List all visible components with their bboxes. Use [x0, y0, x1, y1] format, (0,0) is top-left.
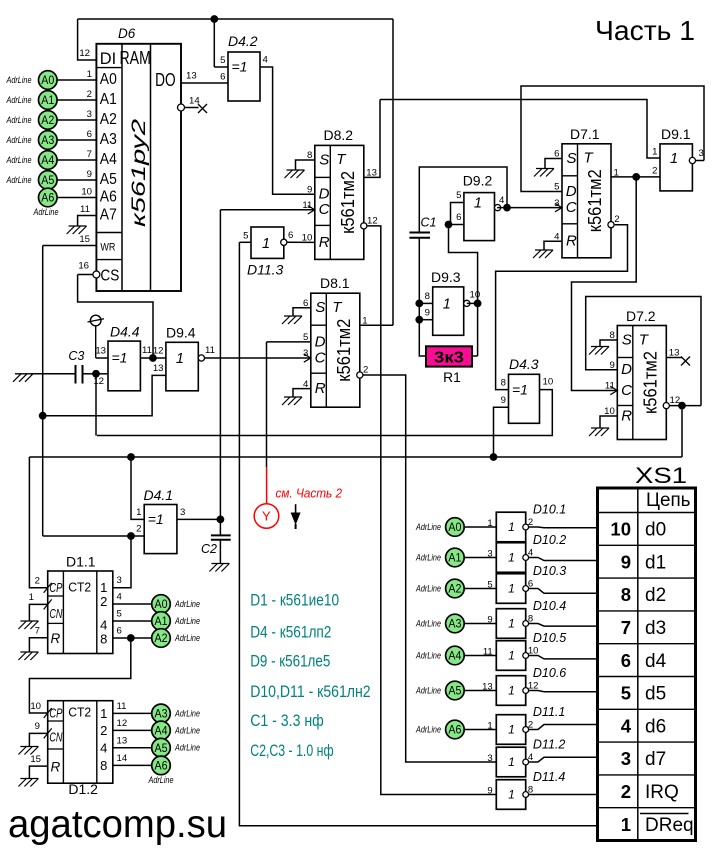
ground C3 [13, 374, 33, 382]
svg-text:A4: A4 [155, 724, 168, 738]
svg-text:1: 1 [508, 617, 515, 631]
svg-text:4: 4 [100, 740, 107, 755]
wire D4.1 pin1 riser [131, 457, 144, 519]
wire D11.2 out to XS1 [528, 757, 597, 762]
wire D9.3 pin9 [419, 319, 432, 321]
svg-text:AdrLine: AdrLine [6, 75, 32, 85]
svg-text:10: 10 [470, 290, 481, 301]
wire D1.1 out1 pin3 [117, 575, 122, 586]
svg-text:A6: A6 [100, 188, 117, 205]
junction D9.2 pin6 [445, 221, 452, 228]
wire D8.2 C clock line [220, 209, 314, 211]
svg-text:R1: R1 [443, 370, 461, 385]
node Y to Часть 2 [254, 504, 279, 529]
svg-text:A2: A2 [155, 631, 168, 645]
ground D7.2 S [589, 347, 609, 355]
wire D1.2 out2 pin12 to A4 [113, 718, 152, 730]
svg-text:C1 - 3.3 нф: C1 - 3.3 нф [250, 712, 324, 730]
wire QN12 down to bus [681, 406, 683, 457]
node A1 AdrLine (RAM side) [6, 89, 97, 109]
svg-text:D: D [566, 183, 577, 200]
junction D9.3 pin8 [416, 300, 423, 307]
svg-text:C1: C1 [421, 216, 437, 230]
svg-text:1: 1 [100, 706, 107, 721]
svg-text:d7: d7 [645, 749, 666, 770]
wire D9.2 out to D7.1 C [497, 207, 562, 209]
ground D8.1 R [282, 397, 302, 405]
svg-text:D9.3: D9.3 [431, 269, 461, 285]
svg-text:11: 11 [142, 345, 152, 356]
junction D4.4 out CS [150, 355, 157, 362]
svg-text:S: S [315, 299, 325, 316]
svg-text:8: 8 [100, 758, 107, 773]
svg-text:A2: A2 [448, 582, 461, 596]
svg-text:4: 4 [117, 592, 123, 603]
wire D11.3 out to D8.2 R [287, 241, 315, 243]
svg-text:D9.4: D9.4 [166, 325, 196, 341]
wire D9.3 pin8 [419, 302, 432, 304]
svg-text:A1: A1 [100, 91, 117, 108]
svg-text:4: 4 [621, 715, 632, 736]
wire D1.1 R to ground [29, 638, 47, 652]
svg-text:agatcomp.su: agatcomp.su [8, 803, 227, 846]
wire D4.4 out to D9.4 [140, 357, 166, 359]
svg-text:=1: =1 [232, 59, 248, 75]
svg-text:D8.1: D8.1 [320, 275, 350, 291]
svg-text:3: 3 [699, 148, 704, 159]
svg-text:3: 3 [554, 198, 559, 209]
svg-text:1: 1 [487, 518, 492, 529]
wire D10.5 out to XS1 [528, 656, 597, 659]
svg-text:7: 7 [621, 617, 631, 638]
node A4 AdrLine (RAM side) [6, 149, 97, 169]
flip-flop D8.1 к561тм2 [303, 293, 368, 407]
svg-text:см. Часть 2: см. Часть 2 [276, 487, 343, 501]
svg-text:10: 10 [610, 519, 631, 540]
arrow down to Часть 2 [291, 504, 301, 529]
svg-text:D11.2: D11.2 [533, 738, 565, 752]
svg-text:1: 1 [508, 582, 515, 596]
svg-text:12: 12 [79, 48, 90, 59]
svg-text:A1: A1 [155, 614, 168, 628]
wire D11.1 out to XS1 [528, 725, 597, 730]
svg-text:1: 1 [29, 592, 34, 603]
counter D1.2 CT2 [44, 701, 113, 784]
svg-text:AdrLine: AdrLine [415, 686, 441, 696]
inverter D10.6 [482, 666, 566, 705]
svg-text:A5: A5 [100, 171, 117, 188]
wire D4.4 pin13 stub [96, 357, 108, 359]
wire D7.1 R to ground [544, 241, 562, 250]
svg-text:A5: A5 [448, 684, 461, 698]
wire C2 riser [219, 519, 221, 535]
svg-text:A5: A5 [41, 173, 54, 187]
wire Y red segment [266, 467, 268, 504]
wire D8.1 S to ground [293, 308, 311, 316]
svg-text:13: 13 [95, 346, 106, 357]
wire Y line vertical [266, 342, 268, 467]
svg-text:DO: DO [155, 70, 176, 90]
RAM DO pin 13 wire [181, 71, 228, 84]
wire A2 net down to D1.2 CP [29, 638, 130, 713]
svg-text:D10.5: D10.5 [533, 631, 566, 645]
svg-text:D10.3: D10.3 [533, 564, 566, 578]
wire D7.2 S to ground [600, 340, 617, 347]
svg-text:D4.2: D4.2 [228, 33, 258, 49]
svg-text:13: 13 [117, 735, 128, 746]
svg-text:6: 6 [456, 212, 461, 223]
wire D1.1 out8 pin6 to A2 [113, 626, 152, 639]
svg-text:1: 1 [508, 755, 515, 769]
svg-text:3: 3 [487, 753, 492, 764]
svg-text:Y: Y [262, 509, 271, 524]
svg-text:9: 9 [487, 785, 492, 796]
wire D8.1 R to ground [293, 389, 311, 397]
wire D1.1 CN to ground [29, 604, 47, 621]
svg-text:d2: d2 [645, 585, 666, 606]
svg-text:A3: A3 [155, 707, 168, 721]
nor-gate D9.1 [652, 126, 704, 191]
nor-gate D9.2 [456, 173, 505, 241]
svg-text:d1: d1 [645, 552, 666, 573]
svg-text:D4.1: D4.1 [144, 487, 174, 503]
svg-text:C: C [566, 199, 577, 216]
svg-text:RAM: RAM [120, 48, 151, 68]
ground D1.2 R [18, 779, 38, 787]
svg-text:S: S [567, 150, 577, 167]
svg-text:C2: C2 [201, 542, 217, 556]
node A2 AdrLine (RAM side) [6, 109, 97, 129]
node A5 (counter) [152, 738, 171, 757]
svg-text:CP: CP [49, 705, 62, 720]
svg-text:1: 1 [652, 147, 657, 158]
wire DReq net from D11.3 to XS1 [239, 242, 597, 825]
svg-text:2: 2 [100, 723, 107, 738]
wire C2 to ground [219, 540, 221, 564]
svg-text:D4.4: D4.4 [110, 324, 140, 340]
svg-text:D7.1: D7.1 [570, 126, 600, 142]
svg-text:2: 2 [652, 165, 657, 176]
junction D7.2 QN12 [679, 402, 686, 409]
svg-text:1: 1 [508, 723, 515, 737]
svg-text:4: 4 [499, 195, 505, 206]
svg-text:AdrLine: AdrLine [174, 633, 200, 643]
svg-text:d0: d0 [645, 520, 666, 541]
inverter D10.3 [487, 564, 566, 603]
nor-gate D9.3 [425, 269, 481, 335]
svg-text:AdrLine: AdrLine [415, 584, 441, 594]
svg-text:D10.2: D10.2 [533, 533, 566, 547]
svg-text:6: 6 [117, 626, 122, 637]
svg-text:A2: A2 [41, 113, 54, 127]
svg-text:15: 15 [79, 234, 90, 245]
svg-text:D: D [621, 361, 632, 378]
svg-text:A0: A0 [41, 73, 54, 87]
svg-text:C: C [621, 382, 632, 399]
flip-flop D7.2 к561тм2 [604, 326, 680, 440]
node A0 AdrLine (RAM side) [6, 69, 97, 89]
svg-text:A1: A1 [41, 93, 54, 107]
svg-text:3: 3 [180, 507, 185, 518]
svg-text:D10.1: D10.1 [533, 503, 566, 517]
svg-text:2: 2 [136, 524, 141, 535]
svg-text:AdrLine: AdrLine [6, 115, 32, 125]
svg-text:A3: A3 [448, 617, 461, 631]
svg-text:DReq: DReq [645, 815, 694, 836]
ground D1.2 CN [18, 747, 38, 755]
wire C1 bottom to R1 [419, 238, 426, 356]
wire D4.4 pin12 from C3 [96, 373, 108, 375]
svg-text:AdrLine: AdrLine [174, 616, 200, 626]
wire D10.3 out to XS1 [528, 589, 597, 594]
svg-text:11: 11 [80, 204, 90, 215]
svg-text:Часть 1: Часть 1 [595, 15, 695, 46]
svg-text:2: 2 [614, 214, 619, 225]
node A2 (counter) [152, 629, 171, 648]
svg-text:D: D [315, 333, 326, 350]
svg-text:1: 1 [100, 580, 107, 595]
svg-text:D: D [319, 186, 330, 203]
junction C3/D4.4 [93, 370, 100, 377]
wire D7.2 Q13 not connected [666, 357, 682, 359]
svg-text:CN: CN [49, 729, 62, 744]
svg-text:10: 10 [543, 377, 554, 388]
svg-text:7: 7 [87, 149, 92, 160]
junction DI/D4.2 [211, 16, 218, 23]
svg-text:AdrLine: AdrLine [415, 725, 441, 735]
svg-text:15: 15 [30, 754, 41, 765]
wire carry bus horizontal [29, 456, 682, 458]
x-cross pin14 [198, 104, 207, 113]
wire D11.3 in from DReq line [239, 241, 251, 243]
junction D7.1 Q1 [633, 174, 640, 181]
wire D8.1 D from Y line [267, 341, 311, 343]
svg-text:3: 3 [621, 748, 631, 769]
svg-text:12: 12 [117, 718, 128, 729]
wire D9.3 out [467, 302, 478, 304]
wire C3 branch down [95, 374, 97, 436]
wire D1.2 out4 pin13 to A5 [113, 735, 152, 747]
wire D7.1 S to ground [545, 159, 562, 169]
inverter D11.2 [487, 738, 565, 777]
svg-text:D9.2: D9.2 [463, 173, 493, 189]
junction A2 net [127, 635, 134, 642]
wire D9.4 out to D8.1 C [205, 357, 311, 359]
wire R1 right riser [477, 303, 479, 356]
wire C1 top loop [419, 167, 507, 233]
svg-text:A2: A2 [100, 111, 117, 128]
wire D8.1 Q1 to DI riser [360, 324, 393, 326]
inverter D10.2 [487, 533, 566, 572]
wire D7.1 QN2 to D4.3 [496, 225, 628, 390]
svg-text:13: 13 [482, 681, 493, 692]
svg-text:CT2: CT2 [68, 580, 91, 594]
RAM D6 к561ру2 [96, 26, 181, 291]
svg-text:D4 - к561лп2: D4 - к561лп2 [250, 623, 331, 641]
svg-text:A0: A0 [155, 597, 168, 611]
svg-text:D7.2: D7.2 [626, 308, 656, 324]
wire D4.3 out long loop left [97, 390, 553, 436]
svg-text:D6: D6 [118, 26, 136, 41]
svg-text:2: 2 [87, 89, 92, 100]
svg-text:S: S [319, 151, 329, 168]
svg-text:S: S [622, 331, 632, 348]
ground D8.2 S [285, 170, 305, 178]
svg-text:5: 5 [456, 190, 461, 201]
wire D1.1 out4 pin5 to A1 [113, 609, 152, 622]
wire D7.2 D feedback loop [586, 297, 701, 406]
flip-flop D7.1 к561тм2 [554, 144, 619, 258]
node A3 AdrLine (RAM side) [6, 129, 97, 149]
svg-text:AdrLine: AdrLine [415, 553, 441, 563]
wire D4.1 out to C2 [177, 518, 221, 520]
counter D1.1 CT2 [44, 571, 113, 654]
svg-text:9: 9 [425, 308, 430, 319]
wire D9.2 input loop [451, 203, 464, 225]
svg-text:10: 10 [81, 187, 92, 198]
svg-text:D1.1: D1.1 [66, 554, 96, 570]
wire D4.3 pin9 from bus [494, 407, 509, 457]
svg-text:D11.3: D11.3 [247, 262, 284, 278]
svg-text:A6: A6 [448, 723, 461, 737]
svg-text:2: 2 [100, 594, 107, 609]
inverter D11.3 [243, 227, 293, 278]
terminal circle above D4.4 [88, 315, 105, 358]
svg-text:AdrLine: AdrLine [174, 708, 200, 718]
wire D9.2 pin6 [449, 224, 464, 226]
node A1 (counter) [152, 612, 171, 631]
svg-text:1: 1 [508, 788, 515, 802]
svg-text:AdrLine: AdrLine [6, 175, 32, 185]
svg-text:d5: d5 [645, 684, 666, 705]
svg-text:16: 16 [78, 260, 89, 271]
svg-text:9: 9 [487, 614, 492, 625]
capacitor C1 [409, 216, 436, 238]
wire D9.2 pin6 down to D9.3 out [449, 225, 478, 304]
svg-text:6: 6 [220, 72, 225, 83]
svg-text:R: R [621, 407, 632, 424]
svg-text:A0: A0 [448, 520, 461, 534]
wire D8.2 Q13 up [364, 100, 381, 178]
svg-text:C2,C3 - 1.0 нф: C2,C3 - 1.0 нф [250, 742, 333, 760]
svg-text:11: 11 [117, 701, 127, 712]
svg-text:AdrLine: AdrLine [415, 651, 441, 661]
svg-text:DI: DI [100, 49, 116, 68]
svg-text:9: 9 [621, 551, 631, 572]
wire D4.1 pin2 riser down to D1.1 out1 [113, 536, 131, 588]
svg-text:d3: d3 [645, 618, 666, 639]
svg-text:A4: A4 [41, 153, 54, 167]
svg-text:AdrLine: AdrLine [148, 775, 174, 785]
svg-text:A3: A3 [100, 131, 117, 148]
svg-text:C: C [315, 349, 326, 366]
svg-text:1: 1 [508, 649, 515, 663]
inverter D11.4 [487, 770, 565, 809]
svg-text:1: 1 [487, 720, 492, 731]
svg-text:C3: C3 [68, 349, 84, 363]
wire D8.2 S to ground [296, 160, 315, 170]
wire D1.1 CP [29, 587, 47, 589]
svg-text:4: 4 [263, 55, 269, 66]
svg-text:AdrLine: AdrLine [33, 207, 59, 217]
wire D7.1 D from D9.1 loop [521, 86, 704, 192]
wire DI riser right [392, 19, 394, 325]
svg-text:CN: CN [49, 606, 62, 621]
svg-text:9: 9 [501, 395, 506, 406]
junction D9.2 out [504, 204, 511, 211]
node A6 AdrLine (to D11.1) [415, 720, 496, 739]
svg-text:D1.2: D1.2 [68, 781, 98, 797]
node A1 AdrLine (to D10.2) [415, 548, 496, 567]
inverter D10.5 [483, 631, 566, 670]
connector XS1 table [598, 463, 696, 841]
wire C3 left to ground [31, 373, 76, 375]
RAM pin 15 WR wire [43, 234, 97, 246]
svg-text:D1 - к561ие10: D1 - к561ие10 [250, 592, 339, 610]
wire D8.2 QN12 down to D11.4 [367, 226, 497, 795]
junction WR/D9.4pin13 [39, 412, 46, 419]
svg-text:1: 1 [508, 520, 515, 534]
flip-flop D8.2 к561тм2 [302, 145, 378, 259]
ground D7.2 R [589, 428, 609, 436]
svg-text:13: 13 [153, 363, 164, 374]
svg-text:A0: A0 [100, 71, 117, 88]
svg-text:AdrLine: AdrLine [6, 135, 32, 145]
svg-text:d6: d6 [645, 716, 666, 737]
svg-text:1: 1 [621, 814, 631, 835]
svg-text:A6: A6 [155, 759, 168, 773]
wire D10.1 out to XS1 [528, 526, 597, 529]
svg-text:AdrLine: AdrLine [415, 619, 441, 629]
ground D7.1 R [533, 250, 553, 258]
svg-text:12: 12 [153, 346, 164, 357]
svg-text:2: 2 [363, 364, 368, 375]
svg-text:D9.1: D9.1 [661, 126, 691, 142]
svg-text:D11.4: D11.4 [533, 770, 565, 784]
svg-text:1: 1 [670, 151, 678, 167]
svg-text:A3: A3 [41, 133, 54, 147]
svg-text:к561тм2: к561тм2 [333, 319, 354, 382]
wire D4.2 pin5 stub [214, 66, 228, 68]
ground A7 [67, 226, 87, 234]
RAM pin 11 A7 to ground [78, 204, 97, 226]
svg-text:9: 9 [307, 184, 312, 195]
xor-gate D4.4 [93, 324, 152, 391]
svg-text:5: 5 [117, 609, 122, 620]
svg-text:к561тм2: к561тм2 [639, 351, 660, 414]
wire WR vertical [42, 246, 44, 537]
node A0 (counter) [152, 595, 171, 614]
svg-text:5: 5 [621, 683, 631, 704]
node A4 (counter) [152, 721, 171, 740]
svg-text:1: 1 [87, 69, 92, 80]
node A5 AdrLine (to D10.6) [415, 681, 496, 700]
wire D7.2 R to ground [600, 416, 617, 428]
svg-text:R: R [315, 380, 326, 397]
svg-text:A4: A4 [100, 151, 117, 168]
resistor R1 3к3 [426, 346, 472, 385]
svg-text:CP: CP [49, 580, 62, 595]
svg-text:XS1: XS1 [635, 463, 687, 488]
svg-text:=1: =1 [148, 511, 164, 527]
xor-gate D4.3 [501, 356, 554, 423]
svg-text:к561тм2: к561тм2 [584, 169, 605, 232]
svg-text:A7: A7 [100, 206, 117, 223]
svg-text:6: 6 [87, 129, 92, 140]
svg-text:AdrLine: AdrLine [6, 95, 32, 105]
svg-text:AdrLine: AdrLine [174, 743, 200, 753]
wire D10.2 out to XS1 [528, 558, 597, 561]
